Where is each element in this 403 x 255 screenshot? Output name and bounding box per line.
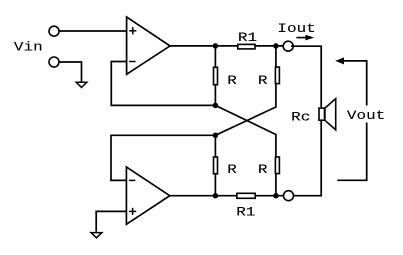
wire speaker to bottom terminal xyxy=(294,121,322,196)
label R (top left) xyxy=(227,74,237,88)
label R (bottom left) xyxy=(227,163,237,177)
svg-text:Rc: Rc xyxy=(291,111,310,125)
wire Vin- to ground xyxy=(59,62,81,82)
terminal Iout xyxy=(283,41,293,51)
label R (top right) xyxy=(258,74,268,88)
node B (U2 feedback junction) xyxy=(213,133,219,139)
wire U1 inverting input feedback loop xyxy=(111,62,215,106)
node U1 output junction xyxy=(213,43,219,49)
wire right column top (right R branch) xyxy=(215,46,276,135)
arrow Iout current direction xyxy=(296,35,314,41)
label Vin xyxy=(14,41,43,55)
svg-text:R1: R1 xyxy=(238,31,257,45)
ground (Vin return) xyxy=(76,82,87,87)
wire U1 output to Iout terminal xyxy=(170,45,283,47)
node bottom-left junction xyxy=(213,193,219,199)
svg-text:Vin: Vin xyxy=(14,41,43,55)
label Rc xyxy=(291,111,310,125)
wire U2 noninverting input to ground xyxy=(96,211,126,231)
resistor R1 (bottom horizontal) xyxy=(237,193,255,198)
node A (U1 feedback junction) xyxy=(213,103,219,109)
resistor R (bottom right vertical) xyxy=(275,157,279,174)
label R (bottom right) xyxy=(258,163,268,177)
resistor R (bottom left vertical) xyxy=(214,157,218,174)
resistor R1 (top horizontal) xyxy=(238,44,255,49)
label R1 (top) xyxy=(238,31,257,45)
svg-text:R: R xyxy=(227,163,237,177)
wire Vin+ to U1 noninverting input xyxy=(59,30,126,32)
label R1 (bottom) xyxy=(236,206,255,220)
wire U2 output to bottom terminal xyxy=(170,195,283,197)
ground (U2) xyxy=(91,233,102,238)
wire left column (top R branch) xyxy=(214,46,216,106)
svg-text:Vout: Vout xyxy=(347,109,385,123)
svg-text:Iout: Iout xyxy=(277,22,315,36)
node top-right junction xyxy=(273,43,279,49)
wire U2 inverting input feedback loop xyxy=(111,135,215,180)
resistor R (top left vertical) xyxy=(214,67,218,84)
label Vout xyxy=(344,106,388,124)
wire left column bottom (bottom-left R branch) xyxy=(214,135,216,195)
op-amp U2 xyxy=(126,167,169,224)
node bottom-right junction xyxy=(273,193,279,199)
svg-text:R1: R1 xyxy=(236,206,255,220)
label Iout xyxy=(277,22,315,36)
op-amp U1 xyxy=(127,17,170,74)
wire cross-coupling diagonal (node A to right column bottom) xyxy=(215,105,276,195)
svg-text:R: R xyxy=(258,163,268,177)
svg-text:R: R xyxy=(227,74,237,88)
terminal output bottom xyxy=(284,191,294,201)
terminal Vin- xyxy=(49,57,59,67)
wire Iout terminal to speaker (top) xyxy=(291,46,321,107)
svg-text:R: R xyxy=(258,74,268,88)
resistor R (top right vertical) xyxy=(275,67,279,84)
arrow and bracket Vout measurement xyxy=(335,57,367,180)
terminal Vin+ xyxy=(49,26,59,36)
speaker Rc xyxy=(319,99,336,130)
